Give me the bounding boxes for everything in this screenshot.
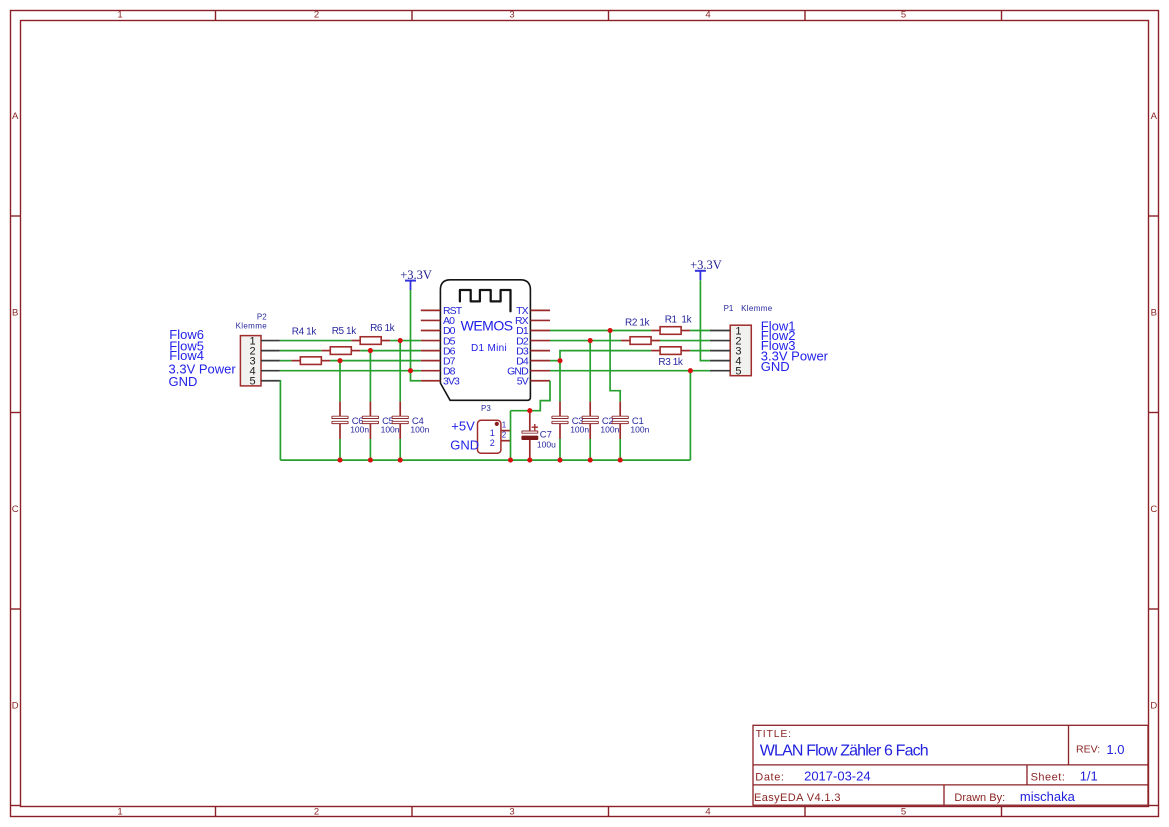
svg-text:1: 1	[502, 421, 507, 430]
op-amp U1 WEMOS D1 Mini module body	[440, 280, 530, 401]
net label 3.3V Power (right)	[761, 349, 829, 364]
U1 label WEMOS	[461, 318, 513, 334]
wire 3.3V rail to U1.D8	[411, 370, 421, 372]
P2 reference designator	[236, 312, 268, 330]
wire C2 branch from row D2	[589, 341, 591, 402]
U1 right pins TX RX D1 D2 D3 D4 GND 5V	[530, 310, 550, 380]
U1 label D1 Mini	[471, 343, 507, 354]
wire R6 to U1.D5	[390, 340, 421, 342]
svg-text:100n: 100n	[410, 424, 429, 434]
U1 left pin name labels	[443, 305, 463, 387]
net label Flow4	[169, 348, 204, 363]
svg-text:1.0: 1.0	[1106, 742, 1124, 757]
wire R5 to U1.D6	[360, 350, 421, 352]
junction row D5 / C4	[398, 338, 403, 343]
connector P2 body	[240, 336, 261, 386]
svg-text:Drawn By:: Drawn By:	[954, 792, 1005, 804]
P1 reference designator	[724, 304, 773, 313]
connector P2 pins 1-5	[261, 341, 280, 381]
capacitor C2 100n	[582, 401, 619, 439]
svg-text:2: 2	[314, 10, 319, 21]
U1 right pin name labels	[507, 305, 529, 387]
svg-text:3: 3	[509, 10, 514, 21]
P3 reference designator	[481, 404, 491, 413]
capacitor C7 100u electrolytic	[522, 412, 556, 458]
svg-text:2: 2	[502, 431, 507, 440]
svg-text:R1 1k: R1 1k	[665, 315, 693, 326]
svg-text:5: 5	[901, 10, 906, 21]
junction row D2 / C2 branch	[588, 338, 593, 343]
junction C7 top node	[527, 408, 532, 413]
svg-text:TITLE:: TITLE:	[756, 728, 792, 740]
svg-text:Date:: Date:	[755, 771, 784, 783]
net label GND (P3)	[450, 438, 479, 453]
svg-text:D: D	[12, 701, 19, 712]
svg-text:1/1: 1/1	[1080, 768, 1098, 783]
net label Flow5	[169, 338, 204, 353]
resistor R1	[651, 315, 693, 335]
P3 pin 1	[501, 430, 511, 432]
svg-text:2: 2	[314, 806, 319, 817]
net label Flow6	[169, 327, 204, 342]
svg-text:GND: GND	[169, 374, 198, 389]
capacitor C4 100n	[392, 401, 429, 439]
svg-text:WEMOS: WEMOS	[461, 318, 513, 334]
svg-text:+3.3V: +3.3V	[690, 258, 722, 272]
antenna squiggle on U1	[460, 290, 511, 311]
net label Flow2	[761, 328, 796, 343]
wire P2.3 to R4 (row D7 left)	[280, 360, 292, 362]
svg-text:1: 1	[490, 428, 495, 438]
wire P2.4 to 3.3V rail (row D8)	[280, 370, 411, 372]
svg-text:2: 2	[490, 438, 495, 448]
resistor R4	[291, 327, 330, 365]
wire P2.5 down to GND rail	[279, 381, 282, 460]
svg-text:Klemme: Klemme	[741, 304, 773, 313]
svg-text:C: C	[12, 504, 19, 515]
svg-text:GND: GND	[761, 359, 790, 374]
net label +5V	[451, 418, 475, 433]
wire R1 to P1.1	[690, 330, 710, 332]
svg-text:100n: 100n	[600, 424, 619, 434]
junction row D1 / C1 branch	[608, 328, 613, 333]
net label Flow3	[761, 338, 796, 353]
wire C7 to GND rail	[529, 458, 531, 460]
junction rail / C1	[618, 458, 623, 463]
resistor R5	[321, 326, 360, 354]
junction row D8 / 3.3V rail	[408, 368, 413, 373]
junction row D4 / C3 branch	[557, 358, 562, 363]
wire C4 to GND rail	[399, 439, 401, 460]
wire D4 jog up to R3 row	[560, 351, 651, 361]
P3 pin name numbers inside	[490, 428, 495, 448]
svg-text:100n: 100n	[381, 424, 400, 434]
frame row labels A-D	[12, 111, 1158, 712]
svg-text:Flow4: Flow4	[169, 348, 204, 363]
svg-text:5: 5	[735, 366, 741, 378]
net label GND (left)	[169, 374, 198, 389]
svg-text:Klemme: Klemme	[236, 321, 268, 330]
svg-text:P1: P1	[724, 304, 734, 313]
wire +3.3V right rail vertical	[700, 280, 709, 360]
power symbol +3.3V right	[690, 258, 722, 280]
connector P3 body	[478, 420, 501, 453]
svg-text:P3: P3	[481, 404, 491, 413]
svg-text:5: 5	[250, 376, 256, 388]
wire R2 to P1.2	[660, 340, 710, 342]
svg-text:Sheet:: Sheet:	[1031, 771, 1066, 783]
net label 3.3V Power (left)	[169, 362, 237, 377]
wire GND bottom rail	[280, 459, 690, 461]
net label Flow1	[761, 319, 796, 334]
junction rail / +5V vertical	[508, 458, 513, 463]
wire P2.2 to R5 (row D6 left)	[280, 350, 321, 352]
P3 pin numbers outside	[502, 421, 507, 440]
svg-text:1: 1	[117, 10, 122, 21]
wire +3.3V left rail vertical	[411, 290, 421, 381]
P2 pin numbers	[250, 335, 256, 387]
wire R4 to U1.D7	[330, 360, 421, 362]
svg-text:REV:: REV:	[1076, 744, 1100, 756]
junction rail / C5	[368, 458, 373, 463]
svg-text:100n: 100n	[630, 424, 649, 434]
svg-text:100n: 100n	[570, 424, 589, 434]
svg-text:+5V: +5V	[451, 418, 475, 433]
capacitor C6 100n	[332, 401, 369, 439]
wire U1.D2 to R2	[550, 340, 621, 342]
svg-text:EasyEDA V4.1.3: EasyEDA V4.1.3	[754, 792, 841, 804]
resistor R3	[651, 347, 690, 368]
capacitor C1 100n	[612, 401, 649, 439]
wire C6 to GND rail	[339, 439, 341, 460]
svg-text:B: B	[1151, 308, 1157, 319]
wire C5 to GND rail	[369, 439, 371, 460]
svg-text:3: 3	[509, 806, 514, 817]
resistor R6	[351, 323, 395, 344]
net label GND (right)	[761, 359, 790, 374]
junction rail / C2	[588, 458, 593, 463]
svg-text:A: A	[1151, 111, 1158, 122]
U1 left pins RST A0 D0 D5 D6 D7 D8 3V3	[421, 310, 441, 380]
svg-text:A: A	[12, 111, 19, 122]
capacitor C3 100n	[552, 401, 589, 439]
junction rail / C4	[398, 458, 403, 463]
svg-text:5V: 5V	[517, 375, 529, 387]
svg-text:+3.3V: +3.3V	[400, 268, 432, 282]
junction rail / C7	[527, 458, 532, 463]
junction rail / C6	[337, 458, 342, 463]
wire C1 to GND rail	[619, 439, 621, 460]
wire U1.D1 to R1	[550, 330, 651, 332]
P1 pin numbers	[735, 325, 741, 377]
junction row D6 / C5	[368, 348, 373, 353]
wire C3 branch down	[559, 361, 561, 402]
frame column labels 1-5	[117, 10, 906, 818]
wire P2.1 to R6 (row D5 left)	[280, 340, 351, 342]
wire C1 branch from row D1	[610, 331, 620, 402]
svg-text:2017-03-24: 2017-03-24	[804, 768, 871, 783]
wire U1.GND row to P1.5	[550, 370, 710, 372]
svg-text:1: 1	[117, 806, 122, 817]
svg-text:C: C	[1150, 504, 1157, 515]
P3 pin-1 polarity dot	[495, 422, 499, 426]
svg-text:R3 1k: R3 1k	[658, 357, 684, 368]
svg-text:mischaka: mischaka	[1020, 789, 1076, 804]
resistor R2	[621, 317, 660, 344]
wire C3 to GND rail	[559, 439, 561, 460]
wire C5 branch from row D6	[369, 351, 371, 402]
svg-text:R4 1k: R4 1k	[292, 327, 318, 338]
svg-text:D1 Mini: D1 Mini	[471, 343, 507, 354]
wire R3 to P1.3	[690, 350, 710, 352]
svg-text:4: 4	[705, 10, 710, 21]
connector P1 body	[730, 325, 751, 376]
wire C6 branch from row D7	[339, 361, 341, 402]
svg-text:B: B	[12, 308, 18, 319]
svg-text:WLAN Flow Zähler 6 Fach: WLAN Flow Zähler 6 Fach	[760, 742, 928, 759]
power symbol +3.3V left	[400, 268, 432, 290]
wire +5V vertical through P3	[510, 411, 512, 460]
capacitor C5 100n	[362, 401, 399, 439]
svg-text:R5 1k: R5 1k	[332, 326, 358, 337]
junction GND row / rail drop	[688, 368, 693, 373]
svg-text:R2 1k: R2 1k	[625, 317, 651, 328]
svg-text:100u: 100u	[537, 440, 556, 450]
junction row D7 / C6	[337, 358, 342, 363]
svg-text:R6 1k: R6 1k	[370, 323, 396, 334]
svg-text:100n: 100n	[350, 424, 369, 434]
P3 pin 2	[501, 440, 511, 442]
svg-text:3V3: 3V3	[443, 375, 460, 387]
title block	[753, 725, 1148, 805]
svg-text:5: 5	[901, 806, 906, 817]
svg-text:D: D	[1150, 701, 1157, 712]
wire GND row down to rail	[689, 371, 691, 460]
wire C4 branch from row D5	[399, 341, 401, 402]
svg-text:GND: GND	[450, 438, 479, 453]
junction rail / C3	[557, 458, 562, 463]
wire U1.D4 to C3 junction	[550, 360, 560, 362]
svg-text:4: 4	[705, 806, 710, 817]
title block texts	[754, 728, 1124, 804]
wire C2 to GND rail	[589, 439, 591, 460]
wire U1.5V staircase to C7 node	[511, 381, 551, 411]
connector P1 pins 1-5	[710, 331, 730, 371]
svg-text:P2: P2	[257, 312, 267, 321]
